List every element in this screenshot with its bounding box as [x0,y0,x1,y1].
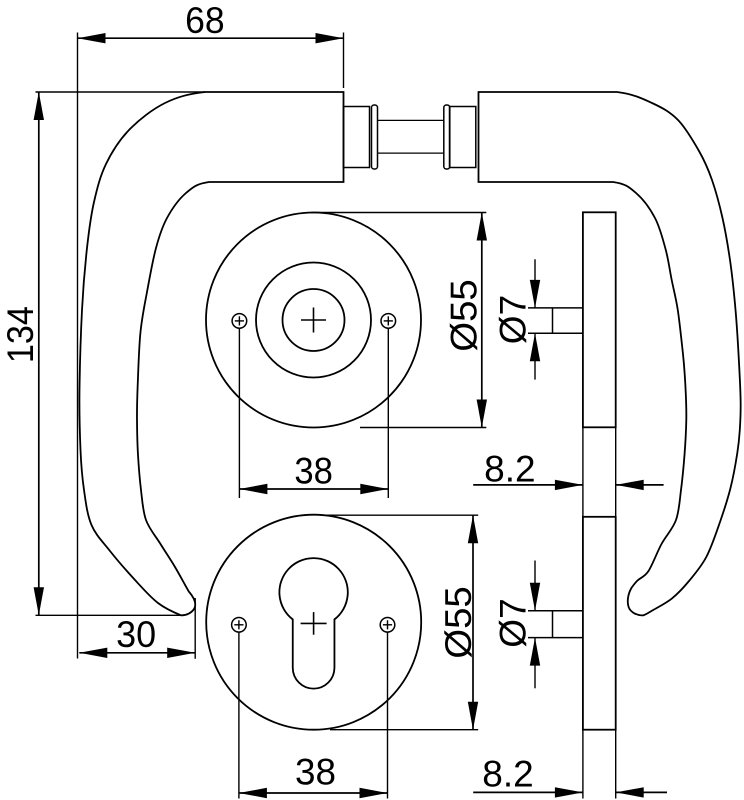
svg-text:38: 38 [294,451,333,492]
svg-text:Ø7: Ø7 [493,598,534,647]
svg-text:Ø7: Ø7 [493,295,534,344]
svg-text:30: 30 [116,614,156,655]
svg-text:Ø55: Ø55 [438,586,479,659]
svg-text:8.2: 8.2 [482,754,533,795]
svg-text:38: 38 [295,752,336,793]
svg-text:8.2: 8.2 [484,449,535,490]
svg-text:134: 134 [0,306,41,363]
svg-text:Ø55: Ø55 [444,279,485,352]
svg-text:68: 68 [185,0,225,41]
